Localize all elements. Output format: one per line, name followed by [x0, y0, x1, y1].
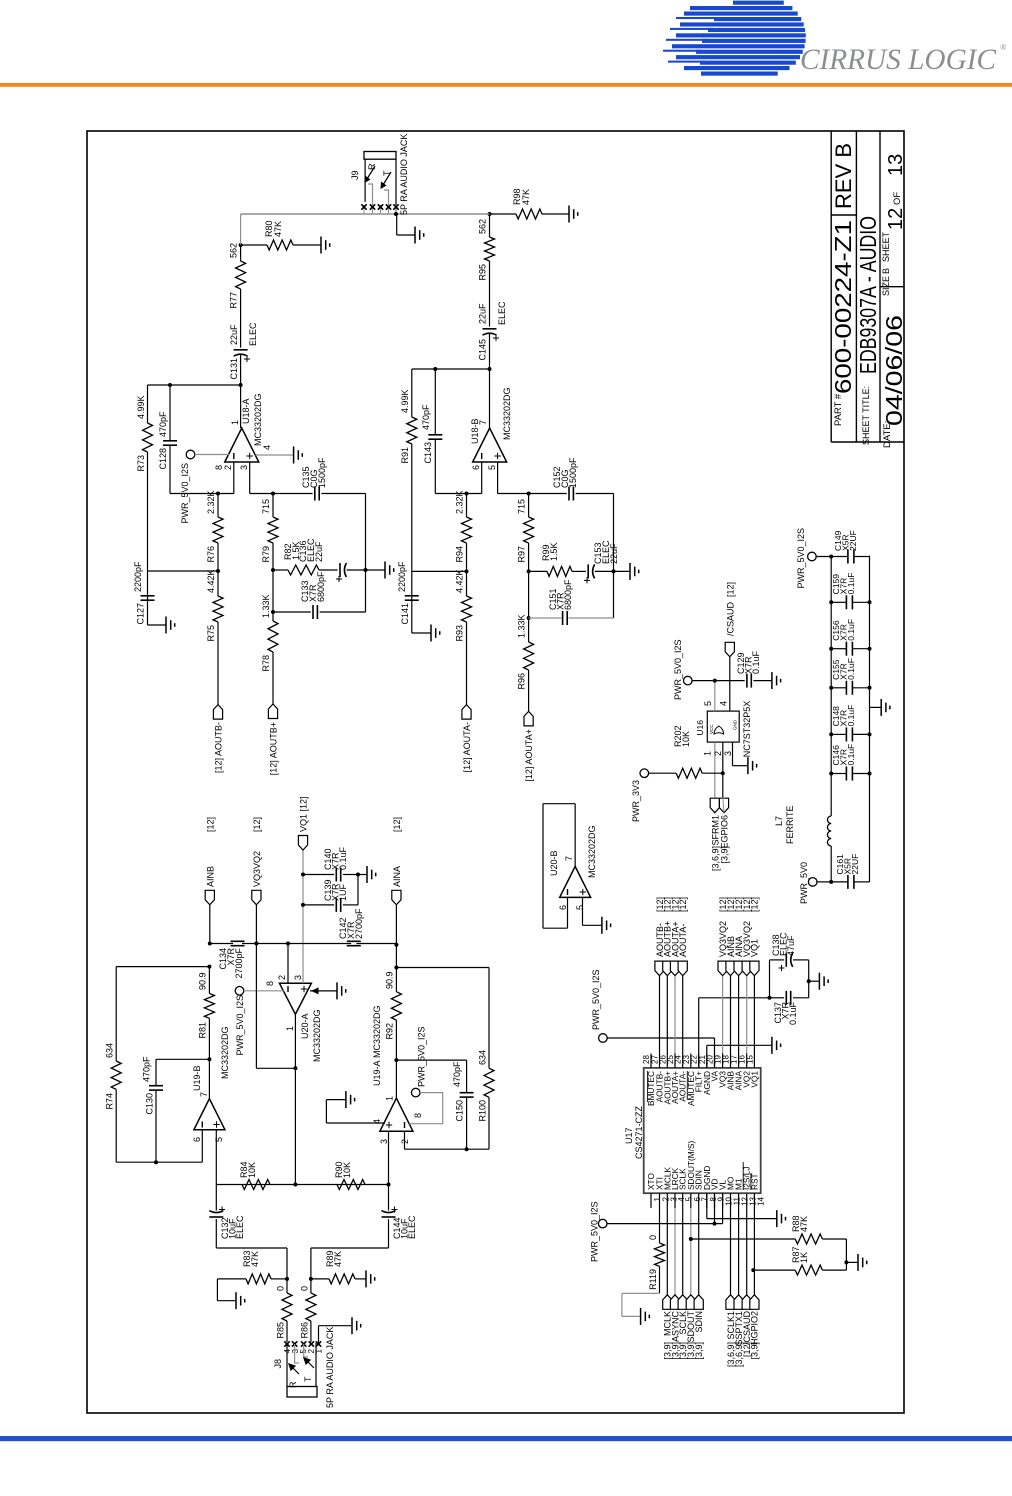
svg-text:PWR_5V0_I2S: PWR_5V0_I2S: [796, 528, 806, 589]
svg-text:R96: R96: [517, 673, 527, 690]
svg-text:AINB: AINB: [205, 866, 215, 887]
svg-text:4.99K: 4.99K: [400, 389, 410, 413]
wire R96 to R99 node: [528, 571, 530, 618]
svg-text:[12]: [12]: [392, 817, 402, 832]
svg-text:R75: R75: [206, 625, 216, 642]
Cirrus Logic logo globe: [663, 1, 806, 76]
svg-text:R119: R119: [648, 1269, 658, 1290]
svg-text:C131: C131: [229, 358, 239, 380]
svg-text:PWR_5V0_I2S: PWR_5V0_I2S: [591, 969, 601, 1030]
wire U16 pin5 VCC: [714, 681, 716, 712]
svg-text:B: B: [881, 268, 891, 274]
junction C133 tee: [271, 610, 275, 614]
capacitor C149 X5R 22UF: [816, 556, 848, 558]
junction C139: [301, 903, 305, 907]
schematic border frame: [87, 131, 904, 1413]
U17 right pins and numbers: [650, 1054, 652, 1068]
junction output feedback rail: [488, 367, 492, 371]
resistor R79 715: [272, 543, 274, 570]
svg-text:R93: R93: [455, 625, 465, 642]
resistor R89 47K: [311, 1278, 329, 1280]
wire U16 VCC drop: [692, 680, 745, 682]
wire PWR_5V0 drop: [817, 881, 831, 883]
svg-text:13: 13: [885, 154, 907, 176]
svg-text:1500pF: 1500pF: [317, 457, 327, 488]
inductor L7 FERRITE: [827, 816, 831, 846]
svg-text:3: 3: [239, 465, 249, 470]
svg-text:4.99K: 4.99K: [136, 395, 146, 419]
ground C141: [430, 625, 432, 642]
junction R97 rail: [527, 492, 531, 496]
wire U18-A pin3: [249, 462, 251, 494]
capacitor C146 X7R 0.1uF: [831, 773, 846, 775]
power tap PWR_5V0_I2S row: [808, 552, 817, 561]
svg-text:2: 2: [713, 751, 723, 756]
resistor R91 4.99K: [411, 444, 413, 571]
wire R100 chain: [488, 1097, 490, 1149]
svg-text:[12]: [12]: [252, 817, 262, 832]
wire J9 top rail: [364, 159, 366, 202]
resistor R95 562: [485, 237, 495, 261]
svg-text:R81: R81: [198, 1022, 208, 1039]
op-amp U18-B output wire: [489, 369, 491, 428]
junction AINA rail: [394, 943, 398, 947]
svg-text:6: 6: [471, 465, 481, 470]
wire C139 C140 join: [357, 875, 359, 905]
tag AOUTB-: [213, 705, 222, 720]
resistor R80 47K: [241, 244, 267, 246]
svg-text:OF: OF: [892, 192, 903, 205]
svg-text:/CSAUD: /CSAUD: [725, 601, 735, 636]
capacitor C139 X7R 1UF: [303, 904, 334, 906]
svg-text:14: 14: [756, 1196, 765, 1205]
op-amp U18-B MC33202DG: [473, 428, 507, 462]
junction R94 rail: [465, 492, 469, 496]
wire U19-A pin3: [388, 1131, 390, 1184]
wire J8 bottom rail: [315, 1343, 317, 1387]
resistor R97 715: [528, 543, 530, 571]
wire U17 pin22 FILT+: [698, 998, 700, 1068]
junction VQ3VQ2 output: [293, 1066, 297, 1070]
svg-text:634: 634: [478, 1050, 488, 1065]
tag VQ3VQ2: [252, 890, 261, 905]
wire U17 pin21 AGND: [706, 1045, 708, 1068]
wire U16 pin3: [732, 742, 734, 766]
ground U20-A pin4 arrow: [310, 990, 337, 992]
codec VQ input tags: [722, 976, 724, 1054]
svg-text:VQ1 [12]: VQ1 [12]: [299, 796, 309, 832]
junction VQ3VQ2 rail: [254, 942, 258, 946]
capacitor C143 470pF: [434, 439, 436, 493]
capacitor C156 X7R 0.1uF: [831, 648, 846, 650]
svg-text:U20-B: U20-B: [549, 850, 559, 876]
connector J9 pins: [363, 205, 365, 214]
wire to jack bus: [240, 214, 242, 245]
svg-text:HGPIO2: HGPIO2: [750, 1311, 760, 1345]
ground R89: [365, 1270, 367, 1287]
tag /CSAUD: [725, 642, 734, 657]
junction R75 R76 C127: [216, 569, 220, 573]
wire U17 pin8 DGND: [706, 1193, 708, 1218]
wire U20-B pin5: [582, 897, 584, 925]
svg-text:5: 5: [214, 1137, 224, 1142]
tag AOUTA-: [462, 705, 471, 720]
svg-text:ELEC: ELEC: [407, 1215, 417, 1239]
ground R119: [640, 1308, 642, 1325]
junction C140: [301, 873, 305, 877]
svg-text:R86: R86: [300, 1322, 310, 1339]
svg-text:R73: R73: [136, 455, 146, 472]
svg-text:0.1uF: 0.1uF: [846, 705, 856, 727]
ground R82 C136 chain: [366, 569, 386, 571]
svg-text:R91: R91: [400, 447, 410, 464]
wire R78 to R82 node: [272, 570, 274, 612]
ground U20-B pin5: [583, 924, 602, 926]
svg-text:C145: C145: [478, 339, 488, 361]
wire R119 ground hook: [622, 1292, 660, 1294]
net rail U18-B non-inverting: [498, 493, 567, 495]
ground U19-A pin4: [326, 1122, 385, 1124]
junction R76 rail: [216, 492, 220, 496]
svg-text:R77: R77: [229, 292, 239, 309]
svg-text:22uF: 22uF: [229, 324, 239, 345]
net rail U19-A feedback: [405, 1148, 490, 1150]
wire U19-B pin5: [215, 1130, 217, 1185]
svg-text:R: R: [367, 163, 377, 170]
net riser R84 R90: [216, 1184, 388, 1186]
svg-text:PWR_3V3: PWR_3V3: [631, 780, 641, 822]
svg-text:8: 8: [413, 1113, 423, 1118]
net power rail: [830, 846, 832, 882]
junction C151 tee: [527, 616, 531, 620]
svg-text:CS4271-CZZ: CS4271-CZZ: [634, 1105, 644, 1159]
svg-text:1: 1: [285, 1026, 295, 1031]
svg-text:04/06/06: 04/06/06: [881, 315, 907, 426]
wire U19-B pin6: [201, 1130, 203, 1163]
junction R93 R94 C141: [465, 569, 469, 573]
junction SDOUT R88: [689, 1237, 693, 1241]
capacitor C142 X7R 2700pF: [347, 945, 361, 947]
ground R98: [568, 206, 570, 223]
capacitor C130 470pF: [155, 1090, 157, 1162]
svg-text:SHEET TITLE:: SHEET TITLE:: [861, 386, 871, 445]
J9 tip contact hook: [384, 190, 389, 205]
resistor R75 4.42K: [213, 596, 223, 622]
svg-text:VQ1: VQ1: [749, 1071, 759, 1088]
resistor R73 4.99K: [147, 452, 149, 571]
svg-text:R85: R85: [276, 1322, 286, 1339]
svg-text:4.42K: 4.42K: [206, 569, 216, 593]
svg-text:®: ®: [1000, 42, 1007, 52]
capacitor C141 2200pF: [412, 570, 467, 572]
capacitor C129 X7R 0.1uF: [746, 674, 748, 688]
resistor R81 90.9: [208, 1018, 210, 1059]
svg-text:[3,9]: [3,9]: [750, 1342, 760, 1360]
capacitor C134 X7R 2700pF: [231, 945, 245, 947]
tag EGPIO6: [719, 798, 728, 813]
junction U20-A output riser: [293, 1183, 297, 1187]
capacitor C155 X7R 0.1uF: [831, 687, 846, 689]
ground C137 C138: [809, 980, 820, 982]
junction AINB rail: [208, 942, 212, 946]
svg-text:U19-B: U19-B: [192, 1065, 202, 1091]
tag VQ1: [298, 836, 307, 851]
svg-text:R74: R74: [105, 1093, 115, 1110]
svg-text:634: 634: [105, 1043, 115, 1058]
junction VD: [713, 1222, 717, 1226]
J9 ring contact hook: [368, 184, 373, 205]
J9 T switch arrow: [383, 172, 391, 185]
svg-text:0.1uF: 0.1uF: [788, 1001, 798, 1025]
svg-text:PWR_5V0_I2S: PWR_5V0_I2S: [673, 639, 683, 700]
svg-text:3: 3: [379, 1139, 389, 1144]
wire VQ1 to pin3: [302, 850, 304, 983]
svg-text:5P RA AUDIO JACK: 5P RA AUDIO JACK: [399, 134, 409, 215]
svg-text:22UF: 22UF: [850, 854, 860, 875]
op-amp U19-A output wire: [395, 1020, 397, 1098]
ground U18-A pin4: [256, 454, 294, 456]
svg-text:715: 715: [261, 499, 271, 514]
wire U17 pin2 XTI: [659, 1208, 661, 1243]
capacitor C148 X7R 0.1uF: [831, 733, 846, 735]
signal tags MCLK ASYNC SCLK SDOUT SDIN: [666, 1208, 668, 1295]
tag SFRM1: [710, 798, 719, 813]
op-amp U19-B MC33202DG: [194, 1099, 225, 1130]
svg-text:0: 0: [648, 1235, 658, 1240]
svg-text:R79: R79: [261, 546, 271, 563]
svg-text:FERRITE: FERRITE: [785, 805, 795, 844]
svg-text:U19-A: U19-A: [372, 1060, 382, 1086]
op-amp U20-B MC33202DG: [560, 866, 591, 897]
svg-text:C150: C150: [455, 1100, 465, 1122]
svg-text:47K: 47K: [521, 189, 531, 205]
wire J8 top rail: [286, 1343, 288, 1387]
svg-text:0.1uF: 0.1uF: [338, 846, 348, 870]
svg-text:2700pF: 2700pF: [354, 908, 364, 939]
svg-text:[3,9]: [3,9]: [694, 1342, 704, 1360]
capacitor C150 470pF: [396, 1059, 466, 1061]
svg-text:U17: U17: [624, 1127, 634, 1144]
svg-text:5: 5: [487, 465, 497, 470]
svg-text:5: 5: [703, 701, 713, 706]
svg-text:R94: R94: [455, 546, 465, 563]
op-amp U19-A MC33202DG: [380, 1098, 413, 1131]
wire AOUTA- chain: [466, 622, 468, 705]
junction riser C144 pin3: [387, 1183, 391, 1187]
svg-text:10K: 10K: [247, 1162, 257, 1178]
svg-text:0.1uF: 0.1uF: [846, 573, 856, 595]
svg-text:[12]: [12]: [725, 582, 735, 597]
svg-text:22uF: 22uF: [609, 543, 619, 564]
junction HGPIO2 R87: [751, 1268, 755, 1272]
svg-text:6800pF: 6800pF: [563, 579, 573, 610]
svg-text:C127: C127: [136, 603, 146, 625]
wire J9 bottom rail: [395, 159, 397, 214]
op-amp U18-A MC33202DG: [225, 428, 259, 462]
ground C129: [771, 672, 773, 689]
svg-text:1: 1: [230, 420, 240, 425]
svg-text:[12] AOUTA+: [12] AOUTA+: [524, 729, 534, 782]
svg-text:MC33202DG: MC33202DG: [220, 1026, 230, 1079]
svg-text:R100: R100: [478, 1100, 488, 1122]
junction C161 rail: [829, 880, 833, 884]
capacitor C135 COG 1500pF: [314, 487, 316, 501]
junction output feedback rail: [239, 383, 243, 387]
svg-text:4: 4: [262, 445, 272, 450]
svg-text:715: 715: [517, 499, 527, 514]
svg-text:4.42K: 4.42K: [455, 569, 465, 593]
wire U17 pin9 VD: [714, 1193, 716, 1223]
net rail U19-B feedback riser: [116, 966, 209, 968]
svg-text:U16: U16: [695, 720, 705, 736]
svg-text:600-00224-Z1: 600-00224-Z1: [830, 220, 856, 394]
wire AINA: [395, 905, 397, 944]
svg-text:10K: 10K: [681, 731, 691, 747]
svg-text:1.33K: 1.33K: [261, 594, 271, 618]
ground R87 R88: [846, 1261, 858, 1263]
svg-text:NC7ST32P5X: NC7ST32P5X: [742, 701, 752, 758]
wire AOUTB- chain: [217, 622, 219, 705]
svg-text:3: 3: [293, 975, 303, 980]
capacitor C140 X7R 0.1uF: [303, 874, 334, 876]
svg-text:[3,9]: [3,9]: [720, 846, 730, 864]
junction C150 output: [394, 1058, 398, 1062]
capacitor C144 10uF ELEC: [388, 1219, 390, 1248]
svg-text:R: R: [288, 1381, 298, 1388]
capacitor C161 X5R 22UF: [831, 881, 848, 883]
svg-text:MC33202DG: MC33202DG: [312, 1009, 322, 1062]
wire EGPIO6 jog: [723, 798, 724, 813]
resistor R82 1.5K: [273, 569, 288, 571]
wire C135 rail bottom: [365, 494, 367, 613]
svg-text:1.5K: 1.5K: [549, 542, 559, 561]
svg-text:4: 4: [719, 701, 729, 706]
junction C143 feedback rail: [433, 367, 437, 371]
svg-text:470pF: 470pF: [142, 1056, 152, 1082]
resistor R93 4.42K: [462, 596, 472, 622]
svg-text:470pF: 470pF: [421, 404, 431, 430]
svg-text:J8: J8: [273, 1359, 283, 1369]
tag AINA: [392, 890, 401, 905]
power tap PWR_5V0: [808, 878, 817, 887]
svg-text:15: 15: [745, 1055, 754, 1064]
net rail U18-B inverting input: [435, 493, 481, 495]
svg-text:1: 1: [315, 1348, 324, 1353]
net rail U18-A non-inverting: [250, 493, 313, 495]
svg-text:2200pF: 2200pF: [133, 561, 143, 592]
resistor R90 10K: [337, 1180, 365, 1190]
svg-text:SDIN: SDIN: [694, 1311, 704, 1333]
svg-text:J9: J9: [350, 170, 360, 180]
codec output tags: [659, 976, 661, 1054]
svg-text:0.1uF: 0.1uF: [751, 650, 761, 674]
wire C137 C138 bottom: [808, 960, 810, 998]
svg-text:1500pF: 1500pF: [568, 457, 578, 488]
ground decoupling row: [870, 706, 882, 708]
power tap PWR_5V0_I2S U19-A pin8: [411, 1088, 420, 1097]
svg-text:VQ1: VQ1: [750, 939, 760, 957]
capacitor C137 X7R 0.1uF: [769, 960, 771, 998]
J8 tip contact hook: [304, 1344, 308, 1357]
resistor R94 2.32K: [466, 543, 468, 571]
resistor R119 0: [655, 1243, 665, 1266]
net ground rail: [869, 556, 871, 882]
junction R79 rail: [271, 492, 275, 496]
op-amp U20-A output wire: [294, 1014, 296, 1184]
capacitor C132 10uF ELEC: [215, 1185, 217, 1211]
junction R202 EGPIO6: [721, 771, 725, 775]
svg-text:VCC: VCC: [709, 724, 714, 734]
resistor R98 47K: [490, 213, 517, 215]
svg-text:EGPIO6: EGPIO6: [720, 815, 730, 849]
capacitor C153 ELEC 22uF: [587, 564, 589, 578]
svg-text:5P RA AUDIO JACK: 5P RA AUDIO JACK: [325, 1327, 335, 1408]
svg-text:C141: C141: [400, 603, 410, 625]
net riser R100: [396, 967, 489, 969]
power tap PWR_5V0_I2S U16: [684, 676, 693, 685]
svg-text:ELEC: ELEC: [248, 322, 258, 346]
svg-text:[12]: [12]: [205, 817, 215, 832]
resistor R84 10K: [242, 1180, 270, 1190]
svg-text:22uF: 22uF: [478, 303, 488, 324]
resistor R202 10K: [649, 772, 677, 774]
U17 left pins and numbers: [650, 1193, 652, 1208]
svg-text:12: 12: [885, 208, 907, 230]
svg-text:AOUTA-: AOUTA-: [678, 924, 688, 957]
svg-text:MC33202DG: MC33202DG: [253, 393, 263, 446]
svg-text:6: 6: [192, 1137, 202, 1142]
wire R92 to AINA rail: [395, 944, 397, 968]
resistor R92 90.9: [391, 992, 401, 1020]
resistor R99 1.5K: [529, 570, 547, 572]
junction C150 rail: [465, 1147, 469, 1151]
svg-text:470pF: 470pF: [158, 411, 168, 437]
svg-text:8: 8: [265, 981, 275, 986]
svg-text:22UF: 22UF: [848, 530, 858, 551]
svg-text:0.1uF: 0.1uF: [846, 744, 856, 766]
svg-text:7: 7: [564, 856, 574, 861]
resistor R85 0: [286, 1321, 288, 1342]
svg-text:CIRRUS LOGIC: CIRRUS LOGIC: [800, 43, 997, 76]
junction R83 R85: [285, 1277, 289, 1281]
svg-text:0: 0: [300, 1286, 310, 1291]
svg-text:6: 6: [558, 905, 568, 910]
capacitor C133 X7R 6800pF: [273, 611, 311, 613]
op-amp U19-B output wire: [208, 1059, 210, 1098]
svg-text:22uF: 22uF: [314, 541, 324, 562]
wire U16 pin1: [714, 742, 716, 798]
capacitor C127 2200pF: [148, 570, 219, 572]
svg-text:[12] AOUTB+: [12] AOUTB+: [269, 722, 279, 775]
junction C153 gnd: [612, 569, 616, 573]
junction R87 R88 gnd: [844, 1260, 848, 1264]
svg-text:2: 2: [223, 465, 233, 470]
capacitor C151 X7R 6800pF: [529, 617, 562, 619]
connector J8 body bar: [287, 1387, 317, 1398]
svg-text:3: 3: [723, 751, 733, 756]
junction R100 riser: [394, 966, 398, 970]
svg-text:VQ3VQ2: VQ3VQ2: [252, 851, 262, 887]
svg-text:PWR_5V0_I2S: PWR_5V0_I2S: [417, 1026, 427, 1087]
capacitor C131 22uF ELEC: [240, 354, 242, 385]
svg-text:ELEC: ELEC: [235, 1215, 245, 1239]
junction C136 gnd: [364, 568, 368, 572]
junction C130 left rail: [154, 1160, 158, 1164]
svg-text:0: 0: [276, 1286, 286, 1291]
svg-text:R76: R76: [206, 546, 216, 563]
resistor R87 1K: [753, 1269, 795, 1271]
ground U16 pin3: [733, 765, 748, 767]
